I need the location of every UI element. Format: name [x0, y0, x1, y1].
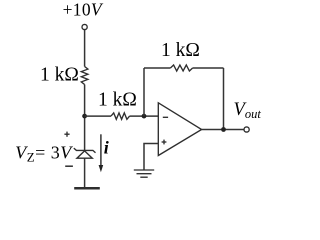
resistor R1 1 kOhm (vertical) [81, 67, 88, 85]
op-amp non-inverting input plus sign [162, 141, 167, 143]
wire node A to R2 [85, 115, 111, 117]
wire op-amp output [202, 129, 244, 131]
wire R2 to inverting input [130, 115, 159, 117]
wire R1 to node A and zener cathode [84, 85, 86, 151]
zener diode D1 cathode bar [74, 148, 96, 153]
zener polarity minus sign [65, 165, 73, 167]
resistor R3 1 kOhm (feedback) [170, 65, 192, 71]
zener diode D1 anode triangle [77, 151, 92, 158]
bottom rail bar [74, 187, 100, 190]
node B feedback junction dot [142, 114, 147, 119]
wire zener anode to bottom rail [84, 158, 86, 187]
svg-text:1 kΩ: 1 kΩ [161, 40, 200, 61]
svg-text:1 kΩ: 1 kΩ [40, 65, 79, 86]
svg-text:i: i [104, 137, 109, 157]
zener polarity plus sign [64, 133, 69, 135]
wire non-inverting input to ground [144, 144, 158, 171]
wire feedback down to output [223, 68, 225, 130]
wire supply to R1 [84, 30, 86, 67]
wire feedback vertical [143, 68, 145, 116]
op-amp inverting input minus sign [163, 116, 168, 118]
current arrow i [100, 134, 102, 166]
resistor R2 1 kOhm (series input) [111, 113, 130, 119]
op-amp U1 triangle [158, 103, 201, 156]
node Vout output terminal [244, 127, 249, 132]
node A junction dot [82, 114, 87, 119]
node C output junction dot [221, 127, 226, 132]
svg-text:+10V: +10V [63, 0, 104, 20]
ground symbol [134, 169, 154, 171]
svg-text:VZ= 3V: VZ= 3V [15, 142, 73, 164]
svg-text:1 kΩ: 1 kΩ [98, 90, 137, 111]
wire feedback horizontal right [193, 67, 224, 69]
node +10V supply terminal [82, 24, 87, 29]
wire feedback horizontal left [144, 67, 170, 69]
